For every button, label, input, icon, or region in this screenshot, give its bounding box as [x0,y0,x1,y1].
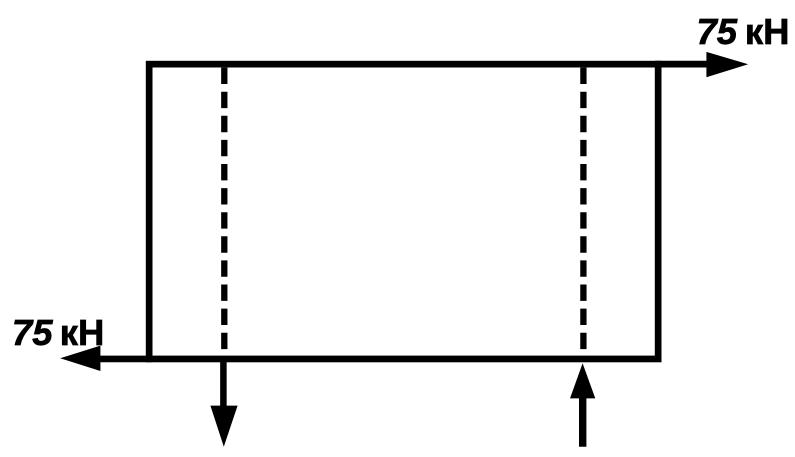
svg-text:75: 75 [12,312,53,353]
svg-text:кН: кН [745,11,790,52]
svg-text:75: 75 [697,11,738,52]
svg-text:кН: кН [60,312,105,353]
